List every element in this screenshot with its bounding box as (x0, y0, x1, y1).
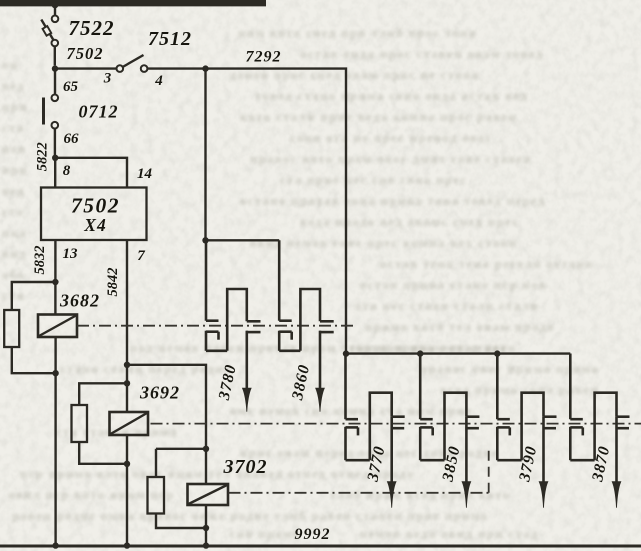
resistor R2 (72, 405, 88, 442)
contact 0712 bottom terminal (52, 122, 59, 129)
wire node 65 to contact 0712 (54, 72, 56, 95)
svg-text:65: 65 (63, 79, 79, 95)
svg-text:9992: 9992 (295, 526, 331, 543)
node at 65 (52, 65, 58, 71)
junction below relay 3702 (203, 525, 209, 531)
svg-text:7292: 7292 (246, 49, 282, 66)
svg-text:7502: 7502 (67, 44, 104, 63)
wire lower contacts feed (346, 352, 570, 354)
relay 3692 coil (110, 412, 149, 435)
contact 0712 bar (42, 98, 45, 125)
junction below relay 3692 (124, 461, 130, 467)
svg-text:66: 66 (64, 131, 80, 147)
svg-text:8: 8 (63, 163, 71, 179)
dash-dot link relay 3702 (229, 492, 489, 494)
junction feed b (417, 350, 423, 356)
wire relay 3702 to bottom bus (205, 505, 207, 545)
wire contact 0712 to junction, net 5822 (54, 128, 56, 157)
svg-text:3790: 3790 (516, 444, 540, 484)
svg-text:0712: 0712 (79, 102, 119, 122)
wire pin 13, net 5832 (54, 240, 56, 315)
switch 7512 terminal 4 (141, 65, 148, 72)
svg-text:3692: 3692 (139, 383, 180, 403)
wire to pin 14 (55, 158, 127, 188)
relay 3702 diagonal (189, 485, 228, 504)
dash-dot link relay 3682 to upper contacts (77, 325, 356, 327)
svg-text:3850: 3850 (439, 444, 463, 484)
switch 7512 terminal 3 (117, 65, 124, 72)
relay 3692 diagonal (111, 413, 148, 434)
contact 3780 (206, 240, 261, 411)
wire 7292 junction down to contact 3780 (204, 69, 206, 241)
wire node to switch 7512 (55, 67, 117, 69)
bus junction c (203, 542, 209, 548)
svg-text:5822: 5822 (35, 142, 51, 171)
svg-text:3702: 3702 (223, 456, 268, 478)
dashed riser link (488, 448, 490, 493)
wire to resistor R2 (79, 383, 127, 405)
bus junction a (52, 542, 58, 548)
contact 3860 (279, 240, 334, 411)
switch 7522 handle (43, 26, 52, 36)
wire to pin 8 (54, 158, 56, 188)
svg-text:7502: 7502 (71, 194, 120, 218)
switch 7522 bottom terminal (52, 40, 59, 47)
junction 3702 top (203, 446, 209, 452)
node on top bar (52, 2, 59, 9)
svg-text:7: 7 (137, 248, 145, 264)
relay 3682 coil (38, 315, 77, 338)
svg-text:13: 13 (63, 246, 79, 262)
contact 3770 (346, 354, 405, 508)
junction feed c (494, 350, 500, 356)
svg-text:3: 3 (103, 71, 112, 87)
top bus bar (0, 0, 266, 6)
svg-text:X4: X4 (83, 215, 106, 235)
wire pin 7, net 5842 (126, 240, 128, 413)
wire 7292 (147, 69, 346, 354)
wire relay 3682 to bottom bus (54, 337, 56, 546)
junction pin 7 branch a (124, 362, 130, 368)
contact 3850 (420, 354, 479, 508)
svg-text:5842: 5842 (105, 268, 121, 297)
svg-text:3682: 3682 (59, 291, 100, 311)
resistor R3 (148, 477, 165, 514)
resistor R1 (4, 310, 19, 347)
junction pin 13 branch (52, 279, 58, 285)
junction pin 7 branch b (124, 380, 130, 386)
switch 7522 top terminal (52, 15, 59, 22)
contact 3790 (497, 354, 556, 508)
relay 3702 coil (188, 484, 229, 505)
IC box 7502 X4 (41, 188, 147, 241)
wire relay 3702 top lead (205, 449, 207, 484)
wire branch to 3860 (206, 239, 280, 241)
wire to resistor R3 (155, 449, 157, 477)
junction pins 8-14 (52, 155, 58, 161)
svg-text:7522: 7522 (69, 16, 115, 40)
dash-dot link relay 3692 to lower contacts (151, 423, 641, 425)
switch 7512 lever (123, 55, 144, 67)
contact 3870 (570, 354, 629, 508)
wire top bar to switch 7522 (54, 3, 56, 16)
svg-text:3860: 3860 (289, 363, 313, 403)
junction feed a (343, 350, 349, 356)
junction on 7292 wire (202, 65, 208, 71)
junction 3780 branch (202, 237, 208, 243)
svg-text:14: 14 (137, 166, 153, 182)
wire to resistor R1 (12, 282, 56, 310)
wire switch 7522 to node 65 (54, 46, 56, 65)
wire 3702 group top (156, 448, 206, 450)
contact 0712 top terminal (52, 95, 59, 102)
wire relay 3692 to bottom bus (126, 434, 128, 545)
svg-text:5832: 5832 (32, 246, 48, 275)
switch 7522 lever (41, 20, 54, 42)
svg-text:7512: 7512 (148, 28, 192, 50)
svg-text:3770: 3770 (364, 444, 388, 484)
wire resistor R1 bottom (12, 347, 56, 373)
junction below relay 3682 (52, 370, 58, 376)
bus junction b (124, 542, 130, 548)
wire resistor R3 bottom (156, 514, 206, 529)
svg-text:4: 4 (154, 73, 163, 89)
wire resistor R2 bottom (79, 442, 127, 464)
svg-text:3780: 3780 (216, 363, 240, 403)
bottom bus 9992 (0, 545, 641, 548)
svg-text:3870: 3870 (589, 444, 613, 484)
relay 3682 diagonal (39, 316, 76, 337)
wire branch to 3702 group (127, 365, 206, 449)
